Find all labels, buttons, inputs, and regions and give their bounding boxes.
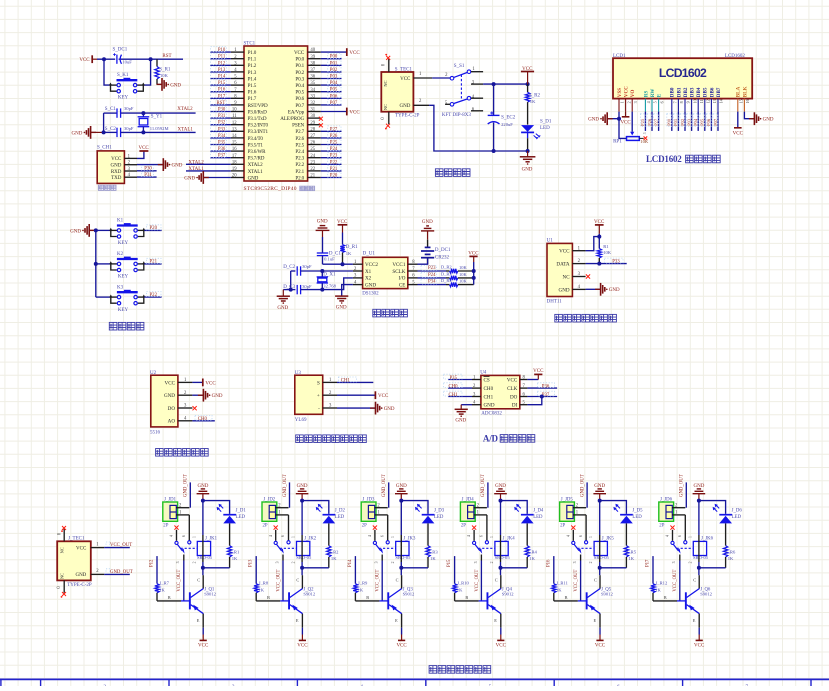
svg-text:1K: 1K <box>655 588 661 593</box>
svg-text:GND: GND <box>396 484 407 489</box>
wire (collector) <box>594 568 600 589</box>
svg-text:3: 3 <box>633 101 638 103</box>
wire GND_OUT net <box>189 482 191 507</box>
caption relay control circuit <box>429 666 437 674</box>
svg-text:P02: P02 <box>330 68 338 73</box>
svg-text:TXD: TXD <box>111 176 122 181</box>
wire (coil bottom rail) <box>699 556 726 568</box>
wire <box>691 112 693 131</box>
wire (JD pin1 to relay pin6) <box>486 515 488 541</box>
svg-text:29: 29 <box>310 121 315 126</box>
svg-text:P07: P07 <box>330 101 338 106</box>
relay coil J_JK5 SRD-05 <box>589 536 614 563</box>
svg-text:VCC_OUT: VCC_OUT <box>574 569 579 591</box>
net label P35 <box>211 139 227 145</box>
svg-text:RXD: RXD <box>111 170 122 175</box>
svg-text:VCC_OUT: VCC_OUT <box>475 569 480 591</box>
net label P34 <box>421 279 436 285</box>
svg-text:19: 19 <box>232 167 237 172</box>
svg-text:6: 6 <box>380 535 384 537</box>
svg-text:J_D2: J_D2 <box>335 508 346 513</box>
power flag VCC (BLA) <box>733 128 744 137</box>
pin 2 GND (S_TEC1) <box>413 99 429 105</box>
pin 2 (MCU left) <box>231 55 244 60</box>
net label P03 <box>328 73 341 79</box>
svg-text:J_JK4: J_JK4 <box>503 536 516 541</box>
svg-text:P12: P12 <box>218 61 226 66</box>
svg-text:32.768: 32.768 <box>323 284 336 289</box>
sheet border <box>0 679 829 690</box>
power ground GND (U2) <box>192 389 222 402</box>
wire (emitter) <box>197 614 204 635</box>
wire (JD pin1 to relay pin6) <box>684 515 686 541</box>
pin 10 DB3 (LCD) <box>692 99 698 112</box>
svg-text:P00: P00 <box>667 118 672 126</box>
svg-text:J_R11: J_R11 <box>556 581 568 586</box>
wire <box>321 111 347 113</box>
pin 7 (ADC right) <box>520 384 528 389</box>
pin 15 BLA (LCD) <box>738 99 744 112</box>
pin 4 (ADC left) <box>472 401 481 406</box>
svg-text:P14: P14 <box>218 75 226 80</box>
svg-text:S_C2: S_C2 <box>105 127 117 132</box>
svg-text:3: 3 <box>375 561 379 563</box>
net label P21 <box>328 166 341 172</box>
svg-text:NC: NC <box>383 104 388 110</box>
svg-text:1K: 1K <box>457 588 463 593</box>
svg-text:33: 33 <box>310 94 315 99</box>
pin 9 DB2 (LCD) <box>685 99 691 112</box>
net label P07 <box>328 100 341 106</box>
svg-text:1K: 1K <box>232 556 238 561</box>
pin 29 (MCU right) <box>308 121 321 126</box>
pin 4 stub (relay) <box>269 530 276 541</box>
svg-text:21: 21 <box>310 174 315 179</box>
wire (coil bottom rail) <box>600 556 627 568</box>
wire <box>321 51 347 53</box>
net label P23 <box>328 152 341 158</box>
svg-text:4: 4 <box>566 535 570 537</box>
LED J_D6 <box>713 504 743 524</box>
net label P16 <box>211 86 227 92</box>
svg-text:B: B <box>565 595 568 600</box>
svg-text:3: 3 <box>573 561 577 563</box>
svg-text:LCD1602: LCD1602 <box>646 154 682 164</box>
wire XTAL2 net <box>143 112 195 114</box>
power ground GND (MCU pin20) <box>184 171 209 184</box>
power flag VCC (emitter) <box>297 635 308 649</box>
svg-text:J_R8: J_R8 <box>259 581 269 586</box>
wire <box>321 71 342 73</box>
svg-text:P0.2: P0.2 <box>295 70 304 76</box>
pin 3 (DHT11) <box>572 272 585 277</box>
svg-text:1: 1 <box>490 536 494 538</box>
junction <box>300 566 304 570</box>
wire <box>144 296 161 298</box>
svg-text:P3.6/WR: P3.6/WR <box>248 149 267 155</box>
wire (collector) <box>197 568 203 589</box>
power ground GND (key circuit) <box>70 224 96 237</box>
svg-text:+: + <box>317 393 320 399</box>
svg-text:J_R4: J_R4 <box>527 549 537 554</box>
svg-text:P26: P26 <box>330 134 338 139</box>
svg-text:12: 12 <box>232 121 237 126</box>
svg-text:J_R1: J_R1 <box>230 549 240 554</box>
net label P05 <box>328 86 341 92</box>
pin 1 (J_JD4) <box>474 511 487 516</box>
caption light module <box>156 449 164 457</box>
svg-text:CR232: CR232 <box>435 255 450 260</box>
svg-text:220uF: 220uF <box>501 122 513 127</box>
pin 36 (MCU right) <box>308 75 321 80</box>
pin 0 bottom (J_TEC1) <box>57 580 64 592</box>
svg-text:4: 4 <box>368 535 372 537</box>
pin 21 (MCU right) <box>308 174 321 179</box>
wire <box>418 277 447 279</box>
svg-text:E: E <box>197 618 200 623</box>
svg-text:B: B <box>366 595 369 600</box>
pin 2 (ADC left) <box>472 384 481 389</box>
svg-text:KEY: KEY <box>118 275 129 280</box>
pin 14 DB7 (LCD) <box>718 99 724 112</box>
svg-text:VCC_OUT: VCC_OUT <box>110 543 132 548</box>
relay contact J_JK2 <box>274 541 296 564</box>
svg-text:DB7: DB7 <box>716 87 722 97</box>
wire VCC_OUT net <box>480 555 482 602</box>
pin 2 (DHT11) <box>572 259 585 264</box>
pin 5 (MCU left) <box>231 75 244 80</box>
net label P22 <box>147 292 162 298</box>
svg-text:VCC: VCC <box>733 132 744 137</box>
svg-text:30pF: 30pF <box>124 106 134 111</box>
no connect X <box>644 136 648 140</box>
svg-text:J_R7: J_R7 <box>160 581 170 586</box>
relay coil J_JK3 SRD-05 <box>391 536 416 563</box>
wire (collector) <box>693 568 699 589</box>
pin 5 (ADC right) <box>520 401 528 406</box>
svg-text:DB0: DB0 <box>670 87 676 97</box>
svg-text:S_Y1: S_Y1 <box>151 114 163 119</box>
power ground GND (LCD right) <box>749 112 774 125</box>
svg-text:J_JK3: J_JK3 <box>403 536 416 541</box>
resistor J_R11 1K (base) <box>552 556 569 601</box>
pin 37 (MCU right) <box>308 68 321 73</box>
svg-text:GND: GND <box>522 167 533 172</box>
wire GND_OUT net <box>104 573 130 575</box>
wire <box>644 112 646 131</box>
svg-text:18: 18 <box>232 160 237 165</box>
svg-text:11: 11 <box>232 114 237 119</box>
svg-text:2: 2 <box>391 561 395 563</box>
earth ground GND (D_C3) <box>277 290 290 311</box>
power ground GND (S_CH1 pin2) <box>137 158 183 171</box>
push button S_K1 KEY <box>109 73 145 101</box>
svg-text:P2.5: P2.5 <box>295 142 304 148</box>
svg-text:CH1: CH1 <box>484 394 494 400</box>
svg-text:30pF: 30pF <box>302 284 312 289</box>
svg-text:28: 28 <box>310 127 315 132</box>
svg-text:GND: GND <box>455 418 466 423</box>
potentiometer RP1 10K <box>613 132 649 145</box>
wire <box>418 284 447 286</box>
wire (LED to resistor) <box>526 523 528 545</box>
pin 3 (MCU left) <box>231 61 244 66</box>
wire <box>321 137 342 139</box>
svg-text:GND: GND <box>212 394 223 399</box>
pin 2 (J_JD4) <box>474 504 487 509</box>
svg-text:NC: NC <box>383 80 388 86</box>
net label P31 <box>142 172 154 178</box>
svg-text:38: 38 <box>310 61 315 66</box>
svg-text:DS1302: DS1302 <box>362 292 379 297</box>
net label P00 <box>328 53 341 59</box>
resistor J_R4 1K <box>525 546 538 568</box>
LED J_D5 <box>613 504 643 524</box>
svg-text:P01: P01 <box>330 61 338 66</box>
transistor J_Q3 S9012 <box>379 588 415 614</box>
wire <box>717 112 719 131</box>
svg-text:P33: P33 <box>612 259 620 264</box>
svg-text:P2.4: P2.4 <box>295 149 304 155</box>
resistor J_R9 1K (base) <box>353 556 368 601</box>
svg-text:10K: 10K <box>459 279 468 284</box>
svg-text:TYPE-C-2P: TYPE-C-2P <box>67 583 92 588</box>
net label P33 <box>211 126 227 132</box>
svg-text:S9012: S9012 <box>403 591 415 596</box>
power flag VCC (power circuit) <box>521 67 534 84</box>
caption key circuit <box>109 322 117 330</box>
net label RST <box>211 100 227 106</box>
svg-text:P13: P13 <box>218 68 226 73</box>
wire BLK to ground <box>744 112 753 119</box>
svg-text:13: 13 <box>712 99 717 103</box>
junction <box>149 57 153 61</box>
svg-text:VCC: VCC <box>533 369 544 374</box>
wire CS net <box>448 379 472 381</box>
pin 7 (DS1302 right) <box>408 267 418 272</box>
pin 2 (J_JD3) <box>375 504 388 509</box>
svg-text:GND_OUT: GND_OUT <box>184 474 189 497</box>
svg-text:GND: GND <box>70 229 81 234</box>
svg-text:9: 9 <box>686 101 691 103</box>
svg-text:X1: X1 <box>365 269 372 275</box>
wire <box>210 124 231 126</box>
pin 8 (DS1302 right) <box>408 260 418 265</box>
svg-text:P0.1: P0.1 <box>295 63 304 69</box>
svg-text:24: 24 <box>310 154 315 159</box>
connector J_JD3 2P <box>361 497 376 528</box>
svg-text:P26: P26 <box>647 118 652 126</box>
svg-text:P21: P21 <box>150 260 158 265</box>
svg-text:J_R3: J_R3 <box>428 549 438 554</box>
svg-text:DATA: DATA <box>556 262 569 268</box>
svg-text:P20: P20 <box>330 174 338 179</box>
net label P12 <box>211 60 227 66</box>
pin 13 (MCU left) <box>231 127 244 132</box>
pin 2 (U3) <box>323 391 337 396</box>
svg-text:VCC: VCC <box>198 643 209 648</box>
svg-text:S_D1: S_D1 <box>540 120 552 125</box>
svg-text:KEY: KEY <box>118 308 129 313</box>
svg-text:1K: 1K <box>529 556 535 561</box>
svg-text:2P: 2P <box>461 524 466 529</box>
pin 16 BLK (LCD) <box>744 99 750 112</box>
net label VCC_OUT <box>106 542 132 548</box>
power ground GND (crystal circuit) <box>72 126 104 139</box>
pin 40 (MCU right) <box>308 48 321 53</box>
svg-text:B: B <box>267 595 270 600</box>
wire <box>321 84 342 86</box>
svg-text:D_R3: D_R3 <box>441 271 453 276</box>
svg-text:VCC: VCC <box>165 380 176 386</box>
net label P02 <box>680 114 685 127</box>
junction <box>492 82 496 86</box>
wire AO net CH0 <box>192 420 214 422</box>
svg-text:E: E <box>395 618 398 623</box>
wire <box>210 51 231 53</box>
power flag VCC (D_R1) <box>337 220 348 233</box>
svg-text:31: 31 <box>310 108 315 113</box>
svg-text:C: C <box>396 578 399 583</box>
svg-text:D_C2: D_C2 <box>283 265 295 270</box>
pin 2 (J_JD1) <box>176 504 189 509</box>
svg-text:VCC: VCC <box>294 50 305 56</box>
svg-text:J_R2: J_R2 <box>329 549 339 554</box>
svg-text:GND: GND <box>484 403 495 409</box>
svg-text:P3.3/INT1: P3.3/INT1 <box>248 129 269 135</box>
svg-text:EA/Vpp: EA/Vpp <box>288 109 305 115</box>
net label P20 <box>147 225 162 231</box>
svg-text:P15: P15 <box>447 559 452 567</box>
svg-text:E: E <box>594 618 597 623</box>
svg-text:10K: 10K <box>459 265 468 270</box>
no connect X (relay pin4) <box>174 526 178 530</box>
pin 2 (J_JD2) <box>275 504 288 509</box>
resistor J_R5 1K <box>624 546 637 568</box>
wire GND_OUT net <box>685 482 687 507</box>
net label P30 <box>211 106 227 112</box>
wire (GND node to LED) <box>302 501 329 514</box>
wire S net CH1 <box>337 381 373 383</box>
svg-text:10: 10 <box>692 99 697 103</box>
wire X2 row <box>301 278 353 290</box>
svg-text:DB4: DB4 <box>696 87 702 97</box>
net label P32 <box>211 119 227 125</box>
svg-text:P0.4: P0.4 <box>295 83 304 89</box>
svg-text:XTAL1: XTAL1 <box>178 128 194 133</box>
wire GND row (DS1302) <box>342 285 353 296</box>
svg-text:VCC: VCC <box>507 377 518 383</box>
svg-text:1K: 1K <box>358 588 364 593</box>
pin 32 (MCU right) <box>308 101 321 106</box>
power ground GND (LCD left) <box>588 112 613 125</box>
relay contact J_JK4 <box>473 541 495 564</box>
junction <box>201 566 205 570</box>
resistor J_R2 1K <box>327 546 340 568</box>
capacitor S_EC2 220uF <box>488 84 516 151</box>
junction <box>141 130 145 134</box>
wire (base) <box>157 595 181 601</box>
svg-text:2P: 2P <box>362 524 367 529</box>
pin 33 (MCU right) <box>308 94 321 99</box>
wire GND_OUT net <box>586 482 588 507</box>
power flag VCC (ADC) <box>527 369 544 380</box>
junction <box>597 235 601 239</box>
pin 3 (U3) <box>323 404 337 409</box>
svg-text:P24: P24 <box>428 273 436 278</box>
wire GND_OUT net <box>487 482 489 507</box>
svg-text:14: 14 <box>232 134 237 139</box>
svg-text:CLK: CLK <box>507 386 518 392</box>
svg-text:GND: GND <box>594 484 605 489</box>
junction <box>399 499 403 503</box>
svg-text:VCC: VCC <box>205 381 216 386</box>
wire CLK net P36 <box>527 387 557 389</box>
svg-text:C: C <box>296 578 299 583</box>
svg-text:VCC: VCC <box>400 77 411 82</box>
pin 39 (MCU right) <box>308 55 321 60</box>
net label P21 <box>147 258 162 264</box>
svg-text:S9012: S9012 <box>601 591 613 596</box>
wire (coil top to GND node) <box>400 501 402 556</box>
svg-text:10K: 10K <box>160 73 169 78</box>
pin 1 (U3) <box>323 378 337 383</box>
svg-text:VCC: VCC <box>76 547 87 552</box>
svg-text:GND: GND <box>297 484 308 489</box>
svg-text:P27: P27 <box>653 118 658 126</box>
resistor J_R6 1K <box>723 546 736 568</box>
svg-text:2: 2 <box>589 561 593 563</box>
pin 0 bottom (S_TEC1) <box>381 112 389 125</box>
svg-text:P30: P30 <box>218 108 226 113</box>
pin 19 (MCU left) <box>231 167 244 172</box>
wire (collector) <box>396 568 402 589</box>
svg-text:S_C1: S_C1 <box>105 107 117 112</box>
svg-text:23: 23 <box>310 160 315 165</box>
svg-text:14: 14 <box>719 99 724 103</box>
svg-text:P17: P17 <box>646 559 651 567</box>
svg-text:0.1uF: 0.1uF <box>324 257 335 262</box>
svg-text:39: 39 <box>310 55 315 60</box>
svg-text:R1: R1 <box>603 244 609 249</box>
pin 4 stub (relay) <box>368 530 375 541</box>
svg-text:1K: 1K <box>530 99 536 104</box>
svg-text:RST: RST <box>216 101 225 106</box>
pin 11 DB4 (LCD) <box>698 99 704 112</box>
pin 5 (DS1302 right) <box>408 280 418 285</box>
svg-text:VCC: VCC <box>111 157 122 162</box>
pin 26 (MCU right) <box>308 141 321 146</box>
svg-text:DI: DI <box>512 403 518 409</box>
svg-text:5516: 5516 <box>150 431 161 436</box>
pin 34 (MCU right) <box>308 88 321 93</box>
svg-text:P3.4/T0: P3.4/T0 <box>248 136 264 142</box>
connector J_TEC1 TYPE-C-2P <box>57 536 92 588</box>
svg-text:P2.7: P2.7 <box>295 129 304 135</box>
svg-text:P13: P13 <box>249 559 254 567</box>
svg-text:S_R2: S_R2 <box>529 94 541 99</box>
svg-text:GND_OUT: GND_OUT <box>481 474 486 497</box>
wire (collector) <box>495 568 501 589</box>
svg-text:P23: P23 <box>330 154 338 159</box>
svg-text:P21: P21 <box>330 167 338 172</box>
pin 31 (MCU right) <box>308 108 321 113</box>
svg-text:P0.3: P0.3 <box>295 76 304 82</box>
svg-text:I/O: I/O <box>399 276 406 282</box>
pin 1 (J_JD1) <box>176 511 189 516</box>
svg-text:P15: P15 <box>218 81 226 86</box>
svg-text:CH0: CH0 <box>484 386 494 392</box>
